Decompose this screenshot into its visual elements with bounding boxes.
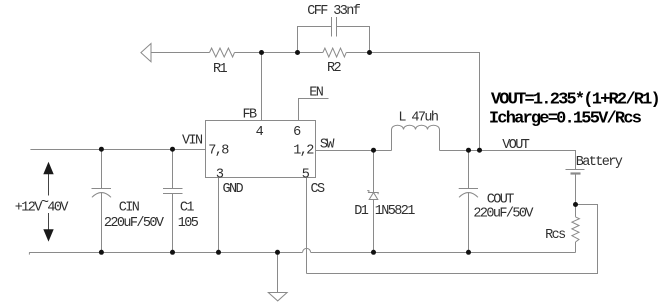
svg-text:+12V~40V: +12V~40V <box>15 196 70 216</box>
wire CS pin 5 vertical <box>306 178 308 274</box>
wire FB vertical <box>261 53 263 121</box>
svg-text:VOUT: VOUT <box>502 138 530 153</box>
resistor R1 <box>210 48 235 57</box>
svg-text:D1: D1 <box>354 204 369 219</box>
svg-text:6: 6 <box>293 125 301 140</box>
wire CS return path to battery-Rcs junction <box>307 205 598 274</box>
ground symbol <box>268 253 287 301</box>
svg-text:220uF/50V: 220uF/50V <box>473 206 534 221</box>
svg-text:CS: CS <box>311 182 326 197</box>
capacitor CFF <box>298 17 370 53</box>
svg-text:1,2: 1,2 <box>293 143 314 158</box>
battery symbol <box>566 170 585 205</box>
svg-text:4: 4 <box>256 125 264 140</box>
svg-text:C1: C1 <box>180 201 195 216</box>
svg-text:220uF/50V: 220uF/50V <box>104 216 165 231</box>
svg-text:1N5821: 1N5821 <box>375 204 416 219</box>
input source arrows +12V~40V <box>43 162 53 242</box>
svg-text:EN: EN <box>309 86 324 101</box>
svg-text:L 47uh: L 47uh <box>398 110 438 125</box>
svg-text:3: 3 <box>216 168 224 183</box>
wire EN pin 6 <box>299 99 329 121</box>
svg-text:5: 5 <box>302 168 310 183</box>
svg-text:VOUT=1.235*(1+R2/R1): VOUT=1.235*(1+R2/R1) <box>491 90 659 109</box>
wire R1 left lead with off-page arrow <box>141 44 210 62</box>
inductor L <box>392 125 440 150</box>
svg-text:Battery: Battery <box>576 155 623 170</box>
svg-text:VIN: VIN <box>182 134 203 149</box>
capacitor COUT <box>459 151 478 253</box>
svg-text:Icharge=0.155V/Rcs: Icharge=0.155V/Rcs <box>489 110 642 129</box>
capacitor CIN <box>92 150 112 253</box>
wire R1 to R2 <box>235 52 323 54</box>
diode D1 <box>367 151 379 253</box>
wire ground rail with hop over CS line <box>29 248 575 254</box>
op-amp U1 (regulator IC body) <box>206 121 316 178</box>
wire VOUT rail <box>440 151 576 170</box>
svg-text:105: 105 <box>178 216 199 231</box>
svg-text:7,8: 7,8 <box>208 143 229 158</box>
svg-text:Rcs: Rcs <box>545 228 565 243</box>
svg-text:R1: R1 <box>213 62 228 77</box>
wire R2 right to feedback drop <box>346 53 479 151</box>
svg-text:R2: R2 <box>327 61 342 76</box>
capacitor C1 <box>163 150 183 253</box>
svg-text:GND: GND <box>223 182 244 197</box>
wire GND pin 3 <box>218 178 220 253</box>
svg-text:CFF 33nf: CFF 33nf <box>307 4 361 19</box>
resistor Rcs <box>572 205 580 253</box>
svg-text:CIN: CIN <box>119 201 140 216</box>
wire SW rail <box>316 150 392 152</box>
svg-text:FB: FB <box>243 108 258 123</box>
resistor R2 <box>323 48 346 57</box>
wire VIN rail <box>30 149 205 151</box>
